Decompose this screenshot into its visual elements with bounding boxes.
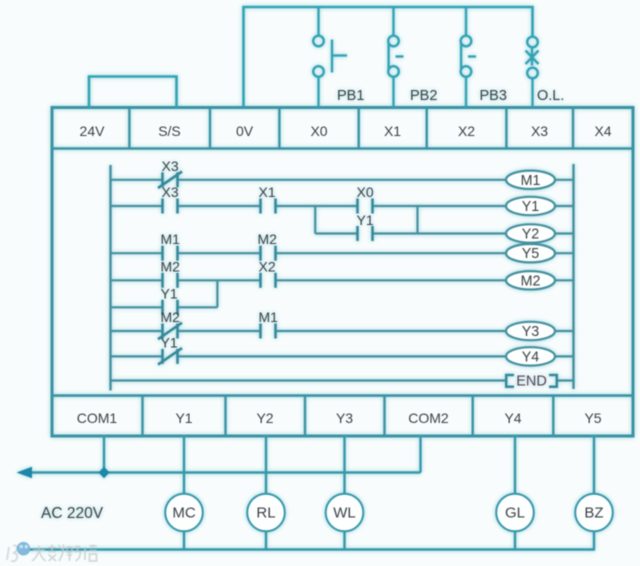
coil M2 (506, 271, 555, 289)
terminal divider Y4/Y5 (552, 396, 554, 436)
svg-text:Y3: Y3 (522, 324, 540, 340)
device MC (165, 494, 203, 532)
contact Y1 branch (358, 226, 373, 241)
wire PB1 to X0 (317, 77, 319, 108)
wire COM2 down (419, 436, 421, 473)
coil Y4 (506, 347, 555, 365)
junction dot COM1/AC (98, 467, 109, 479)
device GL (496, 494, 534, 532)
terminal divider X1/X2 (426, 108, 428, 149)
terminal divider X3/X4 (572, 108, 574, 149)
wire WL to bottom bus (343, 531, 345, 550)
device RL (247, 494, 285, 532)
ladder left rail (109, 165, 111, 391)
input terminal row bottom border (52, 147, 633, 150)
wire jumper 24V to S/S (89, 77, 177, 108)
svg-text:Y4: Y4 (504, 410, 521, 426)
coil Y3 (506, 322, 555, 340)
svg-text:END: END (516, 374, 547, 390)
svg-text:PB3: PB3 (480, 88, 507, 104)
svg-text:X1: X1 (384, 123, 401, 139)
svg-text:M1: M1 (161, 231, 181, 247)
terminal divider SS/0V (209, 108, 211, 149)
svg-text:X2: X2 (458, 123, 475, 139)
svg-text:MC: MC (172, 505, 195, 522)
svg-text:X0: X0 (310, 123, 327, 139)
terminal divider X0/X1 (358, 108, 360, 149)
svg-text:BZ: BZ (584, 505, 603, 522)
ladder right rail (572, 164, 574, 389)
END rung wire (111, 379, 574, 381)
contact M2 NC rung5 (158, 323, 182, 340)
bottom return bus (30, 548, 595, 550)
svg-text:X3: X3 (531, 123, 548, 139)
svg-text:X0: X0 (357, 184, 374, 200)
wire COM1 down (103, 436, 105, 473)
contact M2 rung4 (163, 273, 178, 288)
wire RL to bottom bus (265, 531, 267, 550)
wire bus drop to PB3 (465, 7, 467, 36)
svg-text:0V: 0V (236, 123, 254, 139)
contact M1 rung5 (261, 324, 276, 339)
contact X3 NO rung2 (163, 199, 178, 214)
device WL (326, 494, 364, 532)
contact M1 rung3 (163, 246, 178, 261)
svg-text:WL: WL (333, 505, 356, 522)
svg-text:X2: X2 (259, 258, 276, 274)
contact Y1 NC rung6 (158, 348, 182, 365)
terminal divider 0V/X0 (278, 108, 280, 149)
svg-text:Y1: Y1 (161, 334, 178, 350)
parallel branch Y1 around X0 / feed to Y2 (315, 206, 506, 234)
pushbutton PB2 (388, 36, 403, 77)
wire Y2 to RL (265, 436, 267, 495)
svg-text:S/S: S/S (158, 123, 181, 139)
labels output terminals (77, 410, 602, 426)
terminal divider Y2/Y3 (304, 396, 306, 436)
terminal divider Y1/Y2 (224, 396, 226, 436)
wire Y3 to WL (343, 436, 345, 495)
wire Y1 to MC (183, 436, 185, 495)
rung 2 wire (111, 205, 507, 207)
svg-text:X4: X4 (594, 123, 611, 139)
watermark logo (7, 542, 30, 561)
svg-text:M2: M2 (258, 231, 278, 247)
wire coil Y2 to right rail (555, 232, 574, 234)
END instruction brackets (506, 375, 557, 387)
wire PB2 to X1 (392, 77, 394, 108)
svg-text:AC 220V: AC 220V (41, 505, 104, 522)
wire Y4 to GL (514, 436, 516, 495)
watermark text (32, 545, 97, 562)
wire bus drop to PB1 (317, 7, 319, 36)
svg-text:X1: X1 (259, 184, 276, 200)
pushbutton PB1 (313, 36, 347, 77)
svg-text:COM2: COM2 (408, 410, 449, 426)
parallel branch Y1 around M2 (111, 280, 218, 307)
contact X2 rung4 (261, 273, 276, 288)
svg-text:COM1: COM1 (77, 410, 118, 426)
rung 1 wire (111, 179, 507, 181)
wire coil Y4 to right rail (555, 355, 574, 357)
svg-text:Y2: Y2 (522, 227, 540, 243)
contact Y1 branch2 (163, 300, 178, 315)
terminal divider X2/X3 (505, 108, 507, 149)
coil M1 (506, 171, 555, 189)
svg-text:Y1: Y1 (522, 199, 540, 215)
coil Y5 (506, 244, 555, 262)
svg-text:Y5: Y5 (522, 246, 540, 262)
arrowhead AC supply (17, 467, 33, 478)
svg-text:Y3: Y3 (336, 410, 353, 426)
wire coil M2 to right rail (555, 279, 574, 281)
coil Y2 (506, 224, 555, 242)
wire top bus from 0V to O.L. (244, 7, 533, 108)
wire PB3 to X2 (465, 77, 467, 108)
svg-text:M1: M1 (259, 309, 279, 325)
svg-text:O.L.: O.L. (537, 88, 564, 104)
wire bus drop to PB2 (392, 7, 394, 36)
output terminal row top border (52, 394, 633, 397)
svg-text:RL: RL (256, 505, 275, 522)
pushbutton PB3 (461, 36, 476, 77)
wire coil M1 to right rail (555, 179, 574, 181)
svg-text:Y2: Y2 (256, 410, 273, 426)
svg-text:PB1: PB1 (337, 88, 364, 104)
svg-text:Y1: Y1 (357, 212, 374, 228)
svg-text:M2: M2 (161, 258, 181, 274)
svg-text:Y4: Y4 (522, 349, 540, 365)
svg-text:Y1: Y1 (161, 285, 178, 301)
rung 4 wire (111, 279, 507, 281)
wire coil Y3 to right rail (555, 330, 574, 332)
svg-text:M2: M2 (521, 273, 541, 289)
svg-text:24V: 24V (80, 123, 106, 139)
wire BZ to bottom bus (593, 531, 595, 550)
AC supply bus (26, 471, 421, 474)
wire O.L. to X3 (531, 78, 533, 107)
wire coil Y1 to right rail (555, 205, 574, 207)
svg-text:Y5: Y5 (584, 410, 601, 426)
rung 6 wire (111, 355, 507, 357)
svg-text:X3: X3 (162, 158, 179, 174)
terminal divider COM1/Y1 (141, 396, 143, 436)
wire coil Y5 to right rail (555, 252, 574, 254)
svg-text:PB2: PB2 (410, 88, 437, 104)
wire MC to bottom bus (183, 531, 185, 550)
terminal divider COM2/Y4 (472, 396, 474, 436)
labels input terminals (80, 123, 612, 139)
contact X1 rung2 (261, 199, 276, 214)
contact X3 NC rung1 (158, 172, 182, 189)
svg-text:X3: X3 (162, 184, 179, 200)
contact M2 rung3 (261, 246, 276, 261)
svg-text:M1: M1 (521, 173, 541, 189)
wire GL to bottom bus (514, 531, 516, 550)
svg-text:Y1: Y1 (175, 410, 192, 426)
contact X0 rung2 (358, 199, 373, 214)
terminal divider 24V/SS (128, 108, 130, 149)
coil Y1 (506, 197, 555, 215)
wire Y5 to BZ (593, 436, 595, 495)
svg-text:M2: M2 (161, 309, 181, 325)
svg-text:GL: GL (505, 505, 525, 522)
rung 3 wire (111, 252, 507, 254)
rung 5 wire (111, 330, 507, 332)
device BZ (575, 494, 613, 532)
overload contact O.L. (526, 37, 539, 79)
PLC outer box (52, 108, 633, 437)
terminal divider Y3/COM2 (383, 396, 385, 436)
